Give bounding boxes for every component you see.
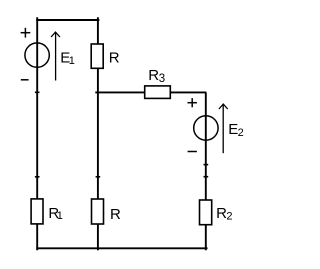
svg-text:R: R (109, 50, 120, 67)
svg-text:R: R (110, 206, 121, 223)
svg-text:1: 1 (57, 210, 63, 222)
svg-text:R: R (148, 67, 159, 84)
svg-text:2: 2 (226, 210, 232, 222)
svg-text:1: 1 (69, 55, 75, 67)
svg-text:3: 3 (159, 73, 165, 85)
svg-text:2: 2 (238, 127, 244, 139)
